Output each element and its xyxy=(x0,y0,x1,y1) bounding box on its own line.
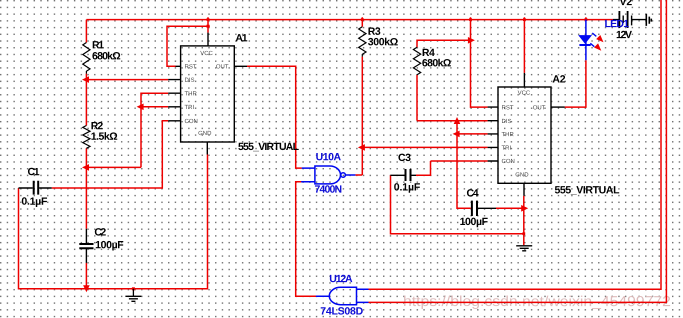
svg-text:GND: GND xyxy=(198,130,212,137)
svg-text:LED1: LED1 xyxy=(605,18,630,30)
svg-text:OUT: OUT xyxy=(533,104,546,111)
svg-text:TRI: TRI xyxy=(185,104,195,111)
svg-text:1.5kΩ: 1.5kΩ xyxy=(91,131,118,143)
svg-text:A2: A2 xyxy=(552,73,565,85)
svg-text:CON: CON xyxy=(501,158,514,165)
svg-text:300kΩ: 300kΩ xyxy=(368,36,399,48)
svg-text:DIS: DIS xyxy=(502,118,512,125)
svg-text:555_VIRTUAL: 555_VIRTUAL xyxy=(554,184,620,196)
svg-text:RST: RST xyxy=(185,63,197,70)
svg-text:GND: GND xyxy=(515,171,529,178)
svg-text:0.1µF: 0.1µF xyxy=(21,196,48,208)
svg-text:12V: 12V xyxy=(616,29,632,41)
svg-text:TRI: TRI xyxy=(502,145,512,152)
svg-text:VCC: VCC xyxy=(518,90,531,97)
svg-text:100µF: 100µF xyxy=(460,216,489,228)
svg-text:RST: RST xyxy=(502,104,514,111)
svg-text:0.1µF: 0.1µF xyxy=(394,182,421,194)
svg-text:VCC: VCC xyxy=(200,50,213,57)
svg-text:680kΩ: 680kΩ xyxy=(92,50,121,62)
svg-text:C3: C3 xyxy=(398,152,411,164)
svg-text:C4: C4 xyxy=(466,188,478,200)
svg-text:74LS08D: 74LS08D xyxy=(320,305,363,317)
svg-text:V2: V2 xyxy=(620,0,633,8)
svg-text:DIS: DIS xyxy=(185,77,195,84)
svg-text:7400N: 7400N xyxy=(314,184,342,196)
svg-text:C2: C2 xyxy=(94,227,106,239)
svg-text:OUT: OUT xyxy=(216,63,229,70)
svg-text:THR: THR xyxy=(185,90,198,97)
svg-text:THR: THR xyxy=(502,131,515,138)
svg-text:A1: A1 xyxy=(235,32,247,44)
svg-text:680kΩ: 680kΩ xyxy=(422,57,452,69)
svg-text:U10A: U10A xyxy=(316,151,342,163)
svg-text:C1: C1 xyxy=(27,166,39,178)
svg-text:100µF: 100µF xyxy=(95,239,124,251)
svg-text:555_VIRTUAL: 555_VIRTUAL xyxy=(238,141,300,153)
svg-text:CON: CON xyxy=(185,118,198,125)
svg-text:U12A: U12A xyxy=(329,273,353,285)
